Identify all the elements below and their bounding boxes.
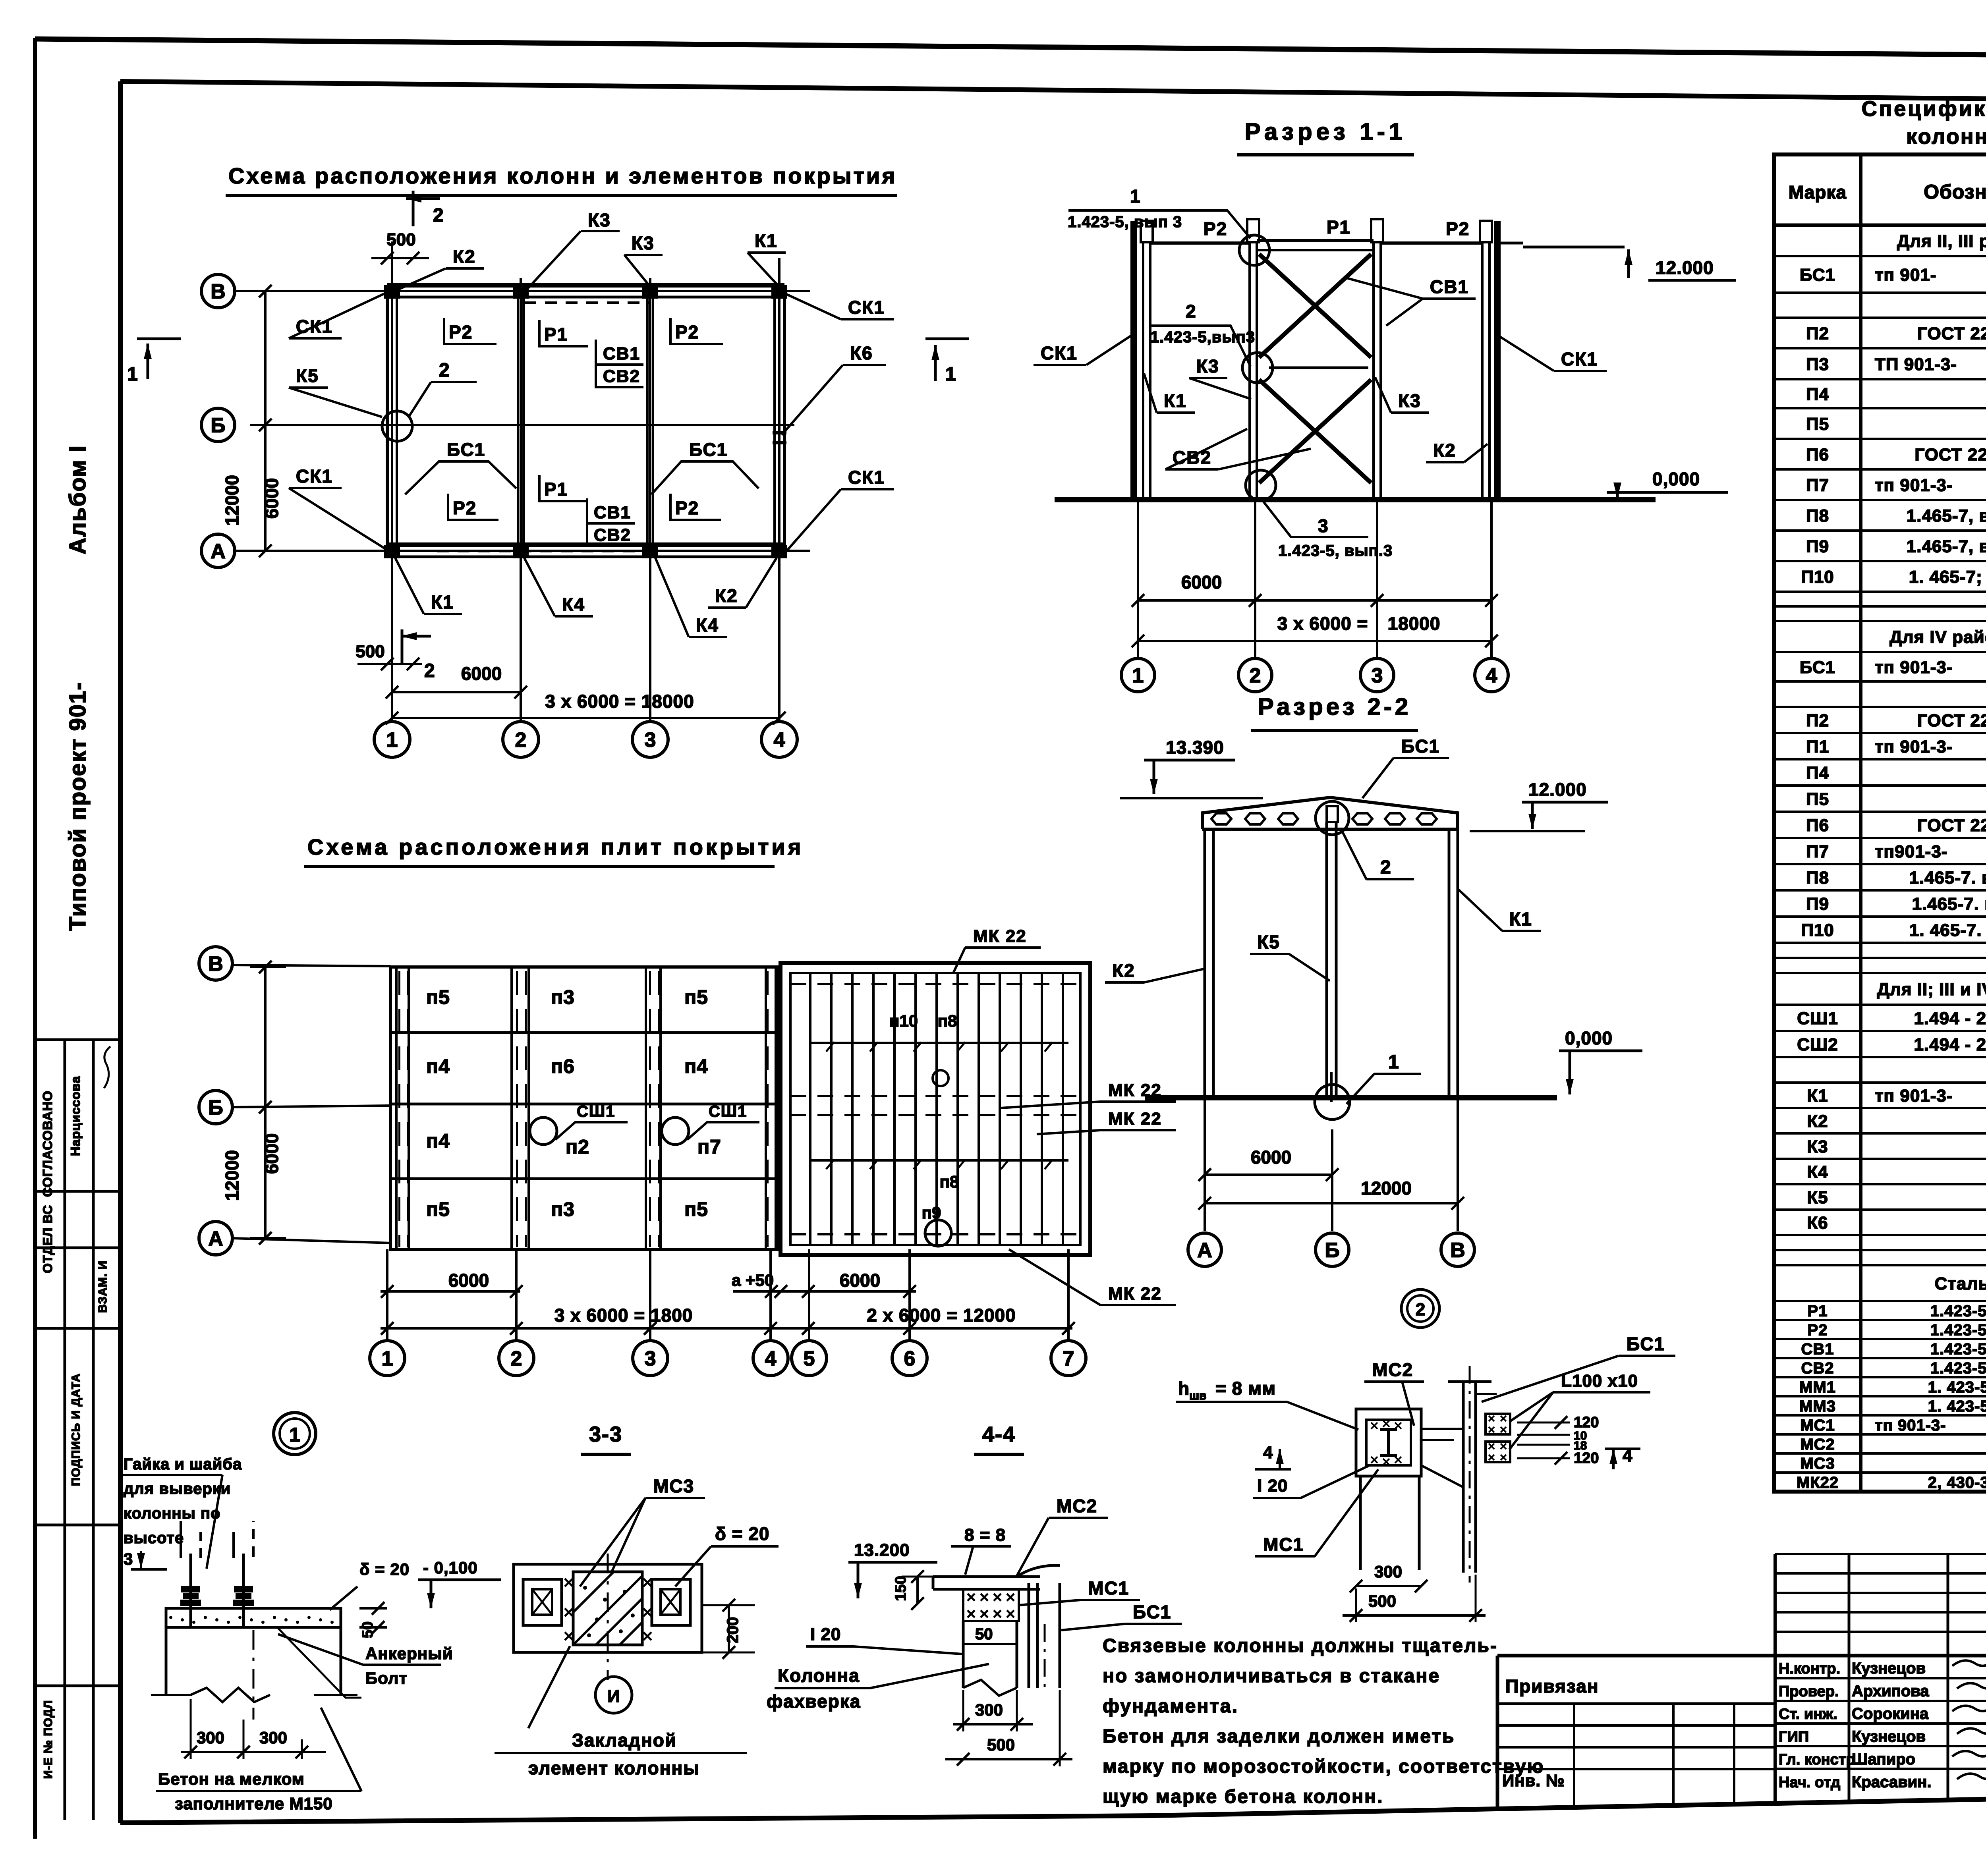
- svg-text:Нарциссова: Нарциссова: [68, 1076, 83, 1156]
- svg-text:5: 5: [804, 1347, 815, 1370]
- svg-text:П2: П2: [1806, 324, 1829, 343]
- section 1-1 grid circles: [1137, 500, 1139, 658]
- svg-text:МК 22: МК 22: [1108, 1109, 1162, 1129]
- svg-text:СШ1: СШ1: [709, 1103, 747, 1120]
- svg-text:п3: п3: [551, 1198, 575, 1220]
- svg-text:4: 4: [1486, 664, 1497, 687]
- plan 2 plate field outline: [390, 967, 779, 1249]
- svg-text:Р1: Р1: [544, 324, 568, 345]
- svg-text:СК1: СК1: [848, 467, 885, 488]
- svg-text:Р2: Р2: [675, 498, 699, 518]
- svg-text:колонн, балок и плит: колонн, балок и плит покрытия: [1906, 125, 1986, 149]
- svg-text:Р2: Р2: [453, 498, 477, 518]
- section 2-2 node circle 1: [1315, 1085, 1350, 1119]
- svg-text:12000: 12000: [1361, 1178, 1412, 1199]
- svg-text:1.494 - 24 ; вып.1: 1.494 - 24 ; вып.1: [1914, 1009, 1986, 1028]
- svg-text:1.494 - 24 ; вып.1: 1.494 - 24 ; вып.1: [1914, 1035, 1986, 1054]
- svg-text:2: 2: [1416, 1300, 1425, 1319]
- plan 1 middle beams col 2 and 3: [517, 291, 519, 551]
- svg-text:П4: П4: [1806, 763, 1829, 783]
- svg-text:СВ2: СВ2: [594, 525, 631, 545]
- svg-text:ММ3: ММ3: [1799, 1397, 1836, 1415]
- svg-text:Б: Б: [208, 1096, 223, 1119]
- svg-text:Кузнецов: Кузнецов: [1852, 1660, 1926, 1677]
- svg-text:Разрез 2-2: Разрез 2-2: [1258, 693, 1411, 720]
- svg-text:марку по морозостойкости, со: марку по морозостойкости, соответствую: [1103, 1756, 1545, 1777]
- svg-text:МС2: МС2: [1057, 1496, 1097, 1516]
- svg-text:Болт: Болт: [365, 1669, 408, 1687]
- svg-text:1: 1: [127, 364, 139, 385]
- svg-text:6000: 6000: [461, 663, 502, 684]
- section 2-2 columns: [1204, 829, 1206, 1098]
- svg-text:шв: шв: [1189, 1389, 1206, 1402]
- svg-text:300: 300: [1374, 1562, 1402, 1581]
- svg-text:СВ2: СВ2: [603, 367, 640, 386]
- svg-text:1: 1: [1388, 1052, 1400, 1073]
- svg-text:4: 4: [774, 729, 785, 752]
- svg-text:П6: П6: [1806, 445, 1829, 464]
- svg-text:1: 1: [386, 729, 398, 752]
- node detail angle plates: [1486, 1414, 1510, 1434]
- svg-text:Бетон для заделки должен и: Бетон для заделки должен иметь: [1103, 1726, 1455, 1747]
- svg-text:Р2: Р2: [675, 322, 699, 342]
- plan 2 vertical beam strips: [395, 967, 398, 1249]
- svg-text:1.423-5 , вып.3: 1.423-5 , вып.3: [1930, 1340, 1986, 1358]
- svg-text:заполнителе М150: заполнителе М150: [175, 1794, 333, 1813]
- svg-text:п9: п9: [922, 1203, 941, 1222]
- svg-text:СВ1: СВ1: [594, 503, 631, 522]
- plan 1 section mark 2 bottom: [401, 629, 404, 664]
- svg-text:БС1: БС1: [447, 439, 485, 460]
- svg-text:Гл. констр: Гл. констр: [1779, 1751, 1855, 1768]
- svg-text:СК1: СК1: [296, 466, 333, 486]
- svg-text:Разрез 1-1: Разрез 1-1: [1245, 118, 1406, 145]
- detail 1 slab with concrete dots: [166, 1608, 341, 1627]
- svg-text:1: 1: [289, 1424, 300, 1446]
- detail 3-3 right embed plate: [652, 1579, 690, 1625]
- svg-text:Схема расположения колонн и: Схема расположения колонн и элементов по…: [228, 163, 897, 188]
- svg-text:высоте: высоте: [124, 1529, 184, 1547]
- svg-text:= 8 мм: = 8 мм: [1215, 1378, 1276, 1399]
- svg-text:п4: п4: [426, 1130, 450, 1152]
- svg-text:6000: 6000: [261, 1133, 282, 1174]
- detail 4-4 weld plate with x marks: [963, 1589, 1019, 1621]
- svg-text:К5: К5: [1807, 1188, 1828, 1207]
- svg-text:3: 3: [124, 1550, 133, 1568]
- detail 3-3 x weld marks: [565, 1579, 573, 1586]
- svg-text:Р1: Р1: [544, 479, 568, 500]
- svg-text:но замоноличиваться в стака: но замоноличиваться в стакане: [1103, 1666, 1440, 1687]
- svg-text:6000: 6000: [1251, 1147, 1291, 1168]
- section 1-1 level 12.000: [1523, 246, 1625, 249]
- detail 3-3 outer plate: [514, 1564, 702, 1652]
- plan 2 left dims: [264, 967, 267, 1238]
- svg-text:МС1: МС1: [1263, 1534, 1304, 1555]
- svg-text:1. 423-5 , вып.3: 1. 423-5 , вып.3: [1928, 1378, 1986, 1396]
- svg-text:ГОСТ 22701.2-77: ГОСТ 22701.2-77: [1917, 816, 1986, 835]
- section 2-2 grid circles А Б В: [1188, 1233, 1221, 1266]
- svg-text:К2: К2: [1807, 1112, 1828, 1131]
- svg-text:300: 300: [259, 1728, 287, 1747]
- section 2-2 middle column К5: [1325, 822, 1328, 1098]
- svg-text:1.423-5,вып3: 1.423-5,вып3: [1150, 328, 1255, 346]
- svg-text:13.390: 13.390: [1166, 737, 1224, 758]
- section 1-1 dims: [1138, 599, 1491, 602]
- svg-text:3 x 6000 =: 3 x 6000 =: [1277, 613, 1368, 634]
- svg-text:1.423-5 , вып.3: 1.423-5 , вып.3: [1930, 1321, 1986, 1339]
- plan 2 СШ1 callouts: [530, 1117, 557, 1145]
- svg-text:ГОСТ 22701.2-77: ГОСТ 22701.2-77: [1917, 711, 1986, 730]
- svg-text:п8: п8: [940, 1172, 959, 1191]
- svg-text:БС1: БС1: [1800, 265, 1835, 285]
- title block upper small grid: [1775, 1553, 1986, 1555]
- svg-text:БС1: БС1: [1133, 1602, 1171, 1622]
- svg-text:2, 430-3 , вып.3: 2, 430-3 , вып.3: [1928, 1474, 1986, 1491]
- svg-text:К2: К2: [715, 585, 738, 606]
- section 1-1 callout 3: [1263, 501, 1368, 537]
- svg-text:Связевые колонны должны тща: Связевые колонны должны тщатель-: [1103, 1635, 1498, 1656]
- svg-text:4-4: 4-4: [982, 1422, 1016, 1446]
- svg-text:К3: К3: [1398, 390, 1421, 411]
- svg-text:БС1: БС1: [1800, 658, 1835, 677]
- svg-text:МК 22: МК 22: [1108, 1284, 1162, 1303]
- svg-text:П6: П6: [1806, 816, 1829, 835]
- svg-text:h: h: [1178, 1378, 1189, 1399]
- svg-text:МС3: МС3: [653, 1476, 694, 1496]
- svg-text:И-Е № ПОДЛ: И-Е № ПОДЛ: [42, 1700, 55, 1779]
- svg-text:ГОСТ 22701.2-77: ГОСТ 22701.2-77: [1917, 324, 1986, 343]
- svg-text:К4: К4: [1807, 1162, 1828, 1182]
- svg-text:МС2: МС2: [1800, 1436, 1835, 1453]
- svg-text:120: 120: [1574, 1414, 1599, 1431]
- svg-text:2: 2: [1250, 664, 1261, 687]
- svg-text:50: 50: [359, 1621, 376, 1638]
- svg-text:1. 423-5 , вып.3: 1. 423-5 , вып.3: [1928, 1397, 1986, 1415]
- plan 1 building outline - top beams row В: [387, 283, 784, 288]
- svg-text:тп 901-3-: тп 901-3-: [1875, 1417, 1946, 1434]
- sheet inner frame: [120, 81, 1986, 104]
- svg-text:13.200: 13.200: [854, 1540, 910, 1560]
- svg-text:7: 7: [1063, 1347, 1074, 1370]
- svg-text:6: 6: [904, 1347, 916, 1370]
- svg-text:Инв. №: Инв. №: [1502, 1771, 1565, 1790]
- section 1-1 columns: [1130, 221, 1137, 500]
- svg-text:500: 500: [355, 642, 384, 661]
- svg-text:4: 4: [1263, 1443, 1273, 1462]
- svg-text:МС2: МС2: [1372, 1359, 1413, 1380]
- svg-text:А: А: [1197, 1239, 1212, 1262]
- svg-text:1.465-7. вып.3 4.1: 1.465-7. вып.3 4.1: [1912, 894, 1986, 914]
- section 2-2 ground line: [1145, 1095, 1557, 1100]
- svg-text:К2: К2: [1112, 960, 1135, 981]
- svg-text:БС1: БС1: [1401, 736, 1440, 757]
- svg-text:В: В: [208, 953, 223, 976]
- svg-text:Шапиро: Шапиро: [1852, 1751, 1915, 1768]
- svg-text:СШ1: СШ1: [1797, 1009, 1838, 1028]
- spec table grid: [1774, 154, 1986, 1492]
- svg-text:ПОДПИСЬ И ДАТА: ПОДПИСЬ И ДАТА: [70, 1373, 83, 1486]
- svg-text:1: 1: [945, 364, 957, 385]
- plan 1 section mark 1 right: [925, 338, 969, 340]
- svg-text:Типовой проект 901-: Типовой проект 901-: [65, 681, 91, 930]
- svg-text:2 x 6000 = 12000: 2 x 6000 = 12000: [867, 1305, 1016, 1326]
- node detail column below: [1359, 1476, 1362, 1570]
- svg-text:П1: П1: [1806, 737, 1829, 757]
- svg-text:Н.контр.: Н.контр.: [1779, 1660, 1840, 1677]
- svg-text:СК1: СК1: [848, 297, 885, 318]
- svg-text:3-3: 3-3: [589, 1422, 622, 1446]
- svg-text:щую марке бетона колонн.: щую марке бетона колонн.: [1103, 1786, 1383, 1807]
- svg-text:К3: К3: [1196, 356, 1219, 376]
- svg-text:п5: п5: [684, 1198, 708, 1220]
- title block personnel rows: [1775, 1677, 1986, 1679]
- svg-text:6000: 6000: [1181, 572, 1222, 593]
- svg-text:П4: П4: [1806, 384, 1829, 404]
- detail 1 foundation block: [165, 1627, 168, 1695]
- svg-text:δ = 20: δ = 20: [715, 1523, 770, 1544]
- svg-text:Спецификация элементов к: Спецификация элементов к схеме расположе…: [1862, 97, 1986, 121]
- svg-text:МК 22: МК 22: [973, 926, 1027, 946]
- svg-text:δ = 20: δ = 20: [359, 1560, 410, 1579]
- svg-text:4: 4: [765, 1347, 777, 1370]
- svg-text:Закладной: Закладной: [572, 1730, 677, 1751]
- detail 3-3 И circle: [595, 1677, 632, 1713]
- svg-text:П7: П7: [1806, 842, 1829, 861]
- svg-text:К6: К6: [1807, 1213, 1828, 1233]
- svg-text:Для IV района по весу: Для IV района по весу: [1889, 627, 1986, 647]
- svg-text:СК1: СК1: [1561, 349, 1598, 369]
- svg-text:2: 2: [433, 205, 444, 226]
- section 1-1 beams: [1150, 241, 1250, 245]
- svg-text:Р1: Р1: [1327, 217, 1350, 237]
- svg-text:18000: 18000: [1388, 613, 1441, 634]
- svg-text:1.465-7, вып 3 . ч.1: 1.465-7, вып 3 . ч.1: [1907, 537, 1986, 556]
- svg-text:1: 1: [382, 1347, 393, 1370]
- svg-text:П3: П3: [1806, 355, 1829, 374]
- svg-text:п10: п10: [889, 1011, 918, 1030]
- svg-text:К4: К4: [562, 594, 585, 615]
- svg-text:Для II; III и IV районов по: Для II; III и IV районов по: [1877, 980, 1986, 999]
- section 2-2 roof slab: [1202, 797, 1458, 829]
- svg-text:500: 500: [1368, 1592, 1396, 1610]
- svg-text:Анкерный: Анкерный: [365, 1644, 453, 1663]
- svg-text:колонны по: колонны по: [124, 1505, 220, 1522]
- svg-text:Стальные: Стальные: [1935, 1274, 1986, 1293]
- plan 2 horizontal plate joints: [390, 1031, 779, 1034]
- svg-text:Р2: Р2: [1204, 218, 1227, 239]
- plan 1 node circle 2 on row Б: [382, 411, 412, 441]
- svg-text:И: И: [607, 1687, 620, 1706]
- svg-text:МК22: МК22: [1797, 1474, 1839, 1491]
- svg-text:200: 200: [724, 1617, 742, 1644]
- svg-text:120: 120: [1574, 1450, 1599, 1467]
- svg-text:6000: 6000: [261, 478, 282, 519]
- svg-text:СК1: СК1: [1041, 343, 1078, 363]
- svg-text:Архипова: Архипова: [1852, 1682, 1929, 1700]
- svg-text:К1: К1: [755, 230, 778, 251]
- svg-text:п5: п5: [426, 986, 450, 1008]
- svg-text:- 0,100: - 0,100: [423, 1558, 478, 1577]
- node detail right dimension ticks: [1517, 1422, 1570, 1424]
- svg-text:Привязан: Привязан: [1505, 1676, 1599, 1697]
- svg-text:П9: П9: [1806, 894, 1829, 914]
- svg-text:ММ1: ММ1: [1799, 1378, 1836, 1396]
- svg-text:I 20: I 20: [810, 1625, 841, 1644]
- svg-text:8 = 8: 8 = 8: [964, 1525, 1006, 1545]
- svg-text:12000: 12000: [222, 1150, 242, 1201]
- title block left part rows: [1497, 1702, 1775, 1705]
- detail 1 marker circle: [274, 1413, 316, 1455]
- svg-text:П8: П8: [1806, 868, 1829, 888]
- svg-text:МС3: МС3: [1800, 1455, 1835, 1472]
- plan 1 section mark 1 left: [137, 338, 181, 340]
- svg-text:Провер.: Провер.: [1779, 1683, 1839, 1700]
- svg-text:П9: П9: [1806, 537, 1829, 556]
- plan 1 building outline - bottom beams row А: [387, 542, 784, 547]
- svg-text:п8: п8: [938, 1011, 957, 1030]
- svg-text:элемент колонны: элемент колонны: [528, 1758, 700, 1778]
- svg-text:К5: К5: [296, 365, 319, 386]
- svg-text:фундамента.: фундамента.: [1103, 1696, 1238, 1717]
- svg-text:К1: К1: [431, 592, 454, 612]
- svg-text:Р2: Р2: [1808, 1321, 1828, 1339]
- svg-text:Красавин.: Красавин.: [1852, 1774, 1932, 1791]
- plan 1 row lines: [234, 290, 810, 292]
- svg-text:3: 3: [1318, 515, 1329, 536]
- svg-text:Б: Б: [211, 414, 225, 437]
- svg-text:п6: п6: [551, 1055, 575, 1077]
- svg-text:ГОСТ 22.701.2-77: ГОСТ 22.701.2-77: [1915, 445, 1986, 464]
- svg-text:СВ2: СВ2: [1801, 1359, 1834, 1377]
- node detail weld box: [1356, 1409, 1421, 1476]
- plan 1 side columns (vertical beams): [386, 291, 389, 551]
- detail 3-3 dim 200: [702, 1604, 755, 1606]
- detail 4-4 column below: [962, 1621, 965, 1688]
- svg-text:3: 3: [645, 1347, 656, 1370]
- node detail corbel lines to beam: [1421, 1428, 1463, 1430]
- svg-text:500: 500: [987, 1735, 1015, 1754]
- svg-text:п7: п7: [697, 1136, 721, 1158]
- svg-text:2: 2: [511, 1347, 522, 1370]
- svg-text:0,000: 0,000: [1565, 1028, 1613, 1048]
- svg-text:МС1: МС1: [1800, 1417, 1835, 1434]
- plan 1 column squares at junctions: [384, 285, 400, 299]
- svg-text:1. 465-7; вып.3. 41: 1. 465-7; вып.3. 41: [1909, 567, 1986, 587]
- section 1-1 ground line: [1055, 497, 1656, 502]
- svg-text:тп 901-3-: тп 901-3-: [1875, 658, 1953, 677]
- svg-text:п5: п5: [684, 986, 708, 1008]
- svg-text:А: А: [208, 1228, 223, 1251]
- svg-text:П8: П8: [1806, 506, 1829, 525]
- section 2-2 dims: [1204, 1098, 1206, 1231]
- svg-text:Сорокина: Сорокина: [1852, 1705, 1929, 1723]
- svg-text:П10: П10: [1801, 921, 1834, 940]
- svg-text:3 x 6000 = 18000: 3 x 6000 = 18000: [545, 691, 694, 712]
- svg-text:300: 300: [197, 1728, 224, 1747]
- detail 3-3 center concrete block hatched: [573, 1572, 642, 1645]
- svg-text:L100 x10: L100 x10: [1561, 1371, 1638, 1391]
- svg-text:Для II, III районов по: Для II, III районов по: [1897, 232, 1986, 251]
- svg-text:ТП 901-3-: ТП 901-3-: [1875, 355, 1957, 374]
- svg-text:К3: К3: [1807, 1137, 1828, 1156]
- section 2-2 detail circle 2: [1401, 1289, 1439, 1328]
- svg-text:150: 150: [893, 1576, 909, 1601]
- svg-text:тп 901-: тп 901-: [1875, 265, 1936, 285]
- svg-text:1.423-5 , вып.3: 1.423-5 , вып.3: [1930, 1359, 1986, 1377]
- spec table rows: [1774, 255, 1986, 257]
- svg-text:12.000: 12.000: [1528, 779, 1587, 800]
- detail 4-4 beam БС1 right: [1028, 1583, 1030, 1688]
- plan 1 column grid lines: [391, 241, 393, 721]
- svg-text:БС1: БС1: [1627, 1334, 1665, 1354]
- svg-text:К3: К3: [632, 233, 655, 253]
- svg-text:К4: К4: [696, 615, 719, 635]
- svg-text:I 20: I 20: [1257, 1476, 1288, 1496]
- svg-text:П5: П5: [1806, 414, 1829, 434]
- svg-text:ОТДЕЛ ВС: ОТДЕЛ ВС: [41, 1205, 55, 1273]
- svg-text:а +50: а +50: [732, 1271, 774, 1289]
- svg-text:3: 3: [645, 729, 656, 752]
- svg-text:В: В: [1450, 1239, 1465, 1262]
- svg-text:Б: Б: [1325, 1239, 1339, 1262]
- svg-text:6000: 6000: [840, 1270, 880, 1291]
- section 1-1 node circles on column 2: [1239, 235, 1269, 265]
- svg-text:тп 901-3-: тп 901-3-: [1875, 475, 1953, 495]
- svg-text:ВЗАМ. И: ВЗАМ. И: [96, 1260, 109, 1313]
- svg-text:БС1: БС1: [689, 439, 728, 460]
- plan 1 section mark 2 top: [412, 191, 415, 226]
- detail 3-3 centerline: [607, 1554, 609, 1680]
- svg-text:К2: К2: [1433, 440, 1456, 461]
- svg-text:А: А: [211, 540, 226, 563]
- svg-text:П2: П2: [1806, 711, 1829, 730]
- svg-text:СВ1: СВ1: [603, 344, 640, 363]
- svg-text:СОГЛАСОВАНО: СОГЛАСОВАНО: [40, 1090, 55, 1197]
- svg-text:К3: К3: [588, 210, 611, 230]
- svg-text:1.423-5, вып.3: 1.423-5, вып.3: [1278, 542, 1393, 560]
- svg-text:п5: п5: [426, 1198, 450, 1220]
- svg-text:К5: К5: [1257, 932, 1280, 952]
- svg-text:Альбом I: Альбом I: [65, 445, 91, 554]
- svg-text:1: 1: [1132, 664, 1144, 687]
- svg-text:фахверка: фахверка: [767, 1691, 861, 1712]
- svg-text:Марка: Марка: [1789, 182, 1847, 203]
- svg-text:К1: К1: [1807, 1086, 1828, 1106]
- svg-text:Ст. инж.: Ст. инж.: [1779, 1706, 1837, 1723]
- svg-text:12000: 12000: [222, 475, 242, 526]
- svg-text:Р2: Р2: [1446, 218, 1470, 239]
- plan 1 grid column circles: [374, 722, 410, 757]
- sheet outer border: [33, 38, 37, 1839]
- section 1-1 braces bay 2-3: [1259, 254, 1371, 357]
- detail 1 anchor bolts: [189, 1554, 192, 1627]
- plan 1 grid row circles: [201, 274, 235, 308]
- svg-text:1. 465-7. вып.3 4.1: 1. 465-7. вып.3 4.1: [1909, 921, 1986, 940]
- svg-text:П10: П10: [1801, 567, 1834, 587]
- title block outer: [1496, 1656, 1499, 1809]
- plan 2 grid column circles: [386, 1249, 388, 1341]
- svg-text:1: 1: [1130, 186, 1141, 207]
- svg-text:3: 3: [1372, 664, 1383, 687]
- svg-text:50: 50: [975, 1625, 993, 1643]
- svg-text:п2: п2: [566, 1136, 589, 1158]
- svg-text:тп901-3-: тп901-3-: [1875, 842, 1947, 861]
- plan 1 bottom dims: [392, 691, 521, 693]
- svg-text:6000: 6000: [448, 1270, 489, 1291]
- svg-text:Схема расположения плит по: Схема расположения плит покрытия: [307, 834, 804, 859]
- section 2-2 node circle 2 at apex: [1316, 801, 1349, 835]
- svg-text:3 x 6000 = 1800: 3 x 6000 = 1800: [554, 1305, 693, 1326]
